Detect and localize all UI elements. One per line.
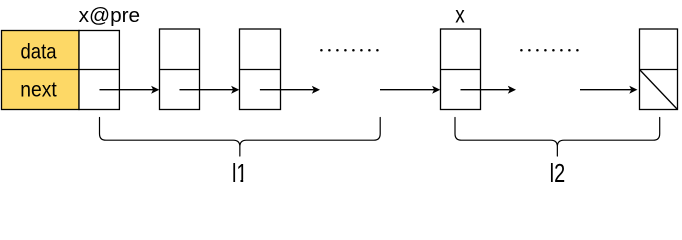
- svg-text:x@pre: x@pre: [79, 5, 141, 27]
- svg-text:l1: l1: [232, 158, 248, 188]
- svg-text:next: next: [20, 79, 57, 102]
- svg-text:l2: l2: [550, 158, 566, 188]
- svg-text:x: x: [455, 2, 465, 28]
- svg-text:data: data: [21, 41, 57, 64]
